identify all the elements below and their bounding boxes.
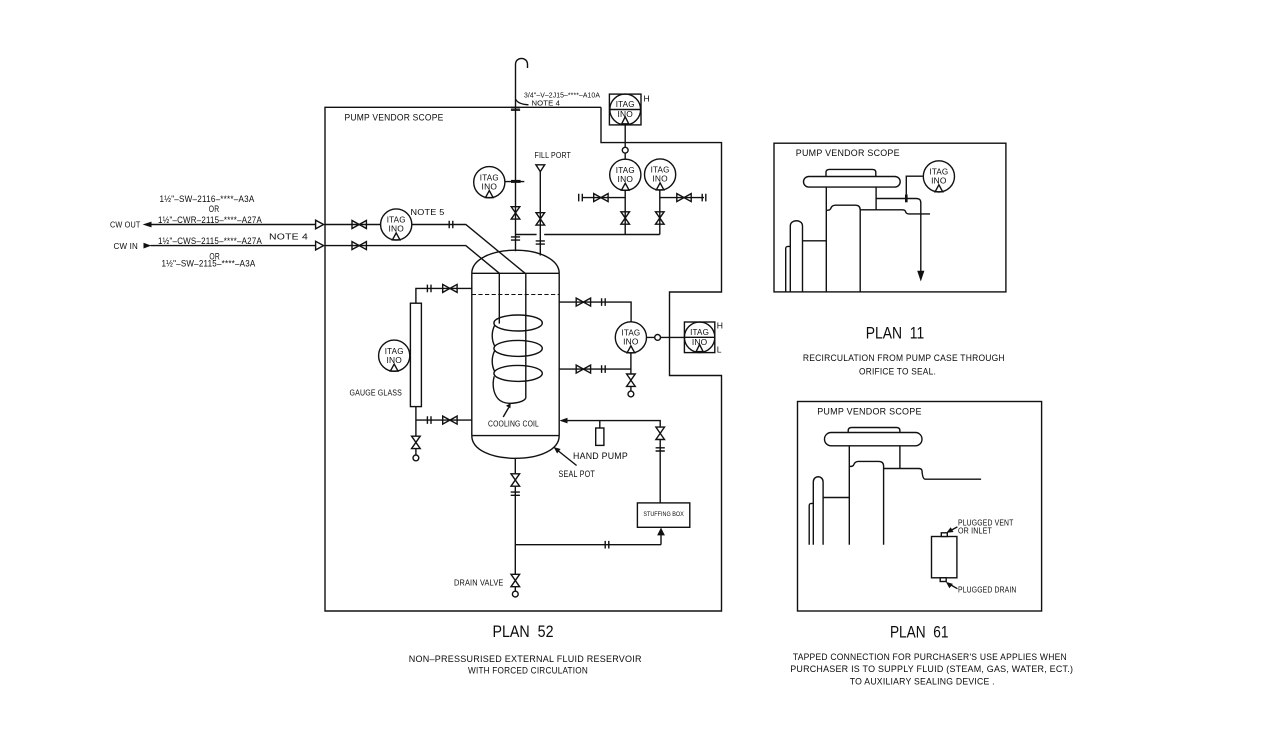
pump base connector wire (plan 61) xyxy=(823,497,849,499)
break right end xyxy=(702,194,706,202)
instrument leg left vertical xyxy=(624,190,626,234)
arrow down to seal (plan 11) xyxy=(917,271,924,282)
svg-text:TO AUXILIARY SEALING DEVICE .: TO AUXILIARY SEALING DEVICE . xyxy=(850,677,995,687)
vessel top head xyxy=(472,250,559,273)
valve on bottom tap xyxy=(443,416,457,424)
gauge glass top tap wire xyxy=(416,288,472,303)
tapped connection block (plan 61) xyxy=(932,537,957,578)
gauge glass drain stub xyxy=(415,449,417,455)
svg-text:COOLING COIL: COOLING COIL xyxy=(488,418,539,428)
svg-text:PUMP VENDOR SCOPE: PUMP VENDOR SCOPE xyxy=(345,113,444,123)
break LT lower tap xyxy=(602,365,606,373)
vessel drain valve xyxy=(511,474,520,486)
svg-text:SEAL POT: SEAL POT xyxy=(559,469,596,479)
svg-text:PLAN 52: PLAN 52 xyxy=(493,623,554,641)
pump suction pipe large (plan 11) xyxy=(790,221,802,292)
cooling coil left connector arcs xyxy=(492,325,494,371)
main drain valve xyxy=(511,574,520,586)
valve on stuffing box line xyxy=(656,427,665,439)
cooling coil loop 2 xyxy=(494,340,542,356)
instrument bubble top right pressure xyxy=(645,159,676,190)
flange pair on fill port pipe xyxy=(536,241,545,244)
arrow CW IN (points right) xyxy=(144,243,152,249)
recirculation wire from case through orifice (plan 11) xyxy=(876,199,921,273)
panel instrument square (high alarm) xyxy=(609,94,641,125)
svg-text:H: H xyxy=(644,94,650,104)
valve instrument leg left xyxy=(621,212,630,224)
svg-text:PURCHASER IS TO SUPPLY FLUID (: PURCHASER IS TO SUPPLY FLUID (STEAM, GAS… xyxy=(790,664,1073,674)
break LT upper tap xyxy=(602,298,606,306)
leader arrow plugged drain xyxy=(951,585,958,589)
coil outlet pipe (internal) xyxy=(498,273,500,323)
arrow CW OUT (points left) xyxy=(143,222,152,228)
LT drain wire xyxy=(630,353,632,391)
bottom header wire xyxy=(515,544,661,546)
svg-text:WITH FORCED CIRCULATION: WITH FORCED CIRCULATION xyxy=(468,666,588,676)
pump base connector wire (plan 11) xyxy=(803,240,827,242)
break on bottom tap xyxy=(427,416,431,424)
svg-text:DRAIN VALVE: DRAIN VALVE xyxy=(454,578,504,588)
scope box PLAN 61 xyxy=(798,402,1042,612)
instrument bubble (vent line) xyxy=(474,167,505,198)
flange pair on vent pipe xyxy=(511,237,520,240)
svg-text:PLAN 11: PLAN 11 xyxy=(866,325,925,343)
svg-text:OR: OR xyxy=(209,204,220,214)
valve on CW IN xyxy=(352,242,366,250)
cooling coil loop 3 xyxy=(494,365,542,381)
wire CW OUT to diagonal xyxy=(412,225,525,274)
small circle between LT and switch xyxy=(655,335,661,341)
instrument bubble NOTE5 line xyxy=(381,209,412,240)
vessel drain wire xyxy=(514,458,516,574)
cooling coil loop 1 xyxy=(494,315,542,331)
wire below valve xyxy=(659,440,661,503)
valve on left purge wire xyxy=(594,194,608,202)
svg-text:ORIFICE TO SEAL.: ORIFICE TO SEAL. xyxy=(859,367,936,377)
stuffing box xyxy=(637,503,689,527)
top stub plugged vent xyxy=(941,533,947,537)
break on bottom header xyxy=(605,541,609,549)
liquid level dashed line xyxy=(472,294,559,296)
boundary connection triangle CW IN xyxy=(316,241,324,250)
header wire from vent pipe to instrument legs (gap at fill pipe) xyxy=(516,234,660,236)
arrow into vessel xyxy=(559,418,567,424)
break on CW OUT xyxy=(449,221,453,229)
svg-text:HAND PUMP: HAND PUMP xyxy=(573,451,628,461)
break on top tap xyxy=(427,285,431,293)
svg-text:RECIRCULATION FROM PUMP CASE T: RECIRCULATION FROM PUMP CASE THROUGH xyxy=(803,353,1005,363)
fill port funnel xyxy=(536,165,545,172)
svg-text:NON–PRESSURISED EXTERNAL FLUID: NON–PRESSURISED EXTERNAL FLUID RESERVOIR xyxy=(409,654,642,664)
svg-text:PUMP VENDOR SCOPE: PUMP VENDOR SCOPE xyxy=(796,148,900,158)
vessel seal pot shell xyxy=(472,273,559,435)
gooseneck vent xyxy=(516,58,528,251)
svg-text:1½"–CWS–2115–****–A27A: 1½"–CWS–2115–****–A27A xyxy=(158,236,262,246)
wire LT to switch square xyxy=(647,336,685,338)
wire CW IN to diagonal xyxy=(325,246,499,274)
orifice plate on vent pipe at tap xyxy=(511,180,521,183)
pump top cap (plan 61) xyxy=(848,428,900,433)
flange pair on drain xyxy=(511,492,520,495)
svg-text:NOTE 4: NOTE 4 xyxy=(269,232,308,242)
svg-text:STUFFING BOX: STUFFING BOX xyxy=(643,511,684,518)
bottom stub plugged drain xyxy=(940,578,946,582)
tap line bubble to vent pipe xyxy=(505,181,524,183)
pump top cap (plan 11) xyxy=(826,169,876,176)
instrument bubble (plan 11) xyxy=(923,161,954,192)
pump suction pipe large (plan 61) xyxy=(813,477,823,545)
valve on fill port pipe xyxy=(536,213,545,225)
valve on right purge wire xyxy=(677,194,691,202)
pump gland block (plan 61) xyxy=(849,446,900,545)
pump gland block (plan 11) xyxy=(826,187,876,292)
svg-text:1½"–SW–2115–****–A3A: 1½"–SW–2115–****–A3A xyxy=(162,259,256,269)
pump seal flange stadium (plan 61) xyxy=(825,433,923,446)
leader arrow plugged vent xyxy=(951,527,957,530)
valve LT drain xyxy=(627,374,636,386)
svg-text:NOTE 5: NOTE 5 xyxy=(411,207,445,217)
pump seal flange stadium (plan 11) xyxy=(804,177,901,188)
hand pump return wire with arrow into vessel xyxy=(567,421,661,427)
instrument bubble gauge glass xyxy=(379,340,410,371)
valve on vent pipe xyxy=(511,207,520,219)
break on stuffing box line xyxy=(656,448,665,451)
valve LT upper tap xyxy=(576,298,590,306)
gauge glass drain valve xyxy=(412,436,421,448)
gauge/purge wire left of instrument legs xyxy=(582,197,625,199)
small circle above bubble xyxy=(622,147,628,153)
svg-text:PUMP VENDOR SCOPE: PUMP VENDOR SCOPE xyxy=(817,407,922,417)
coil inlet pipe (internal) xyxy=(525,273,527,398)
drain cap xyxy=(512,591,518,597)
panel instrument square (level switch H/L) xyxy=(684,322,714,353)
leader curve vent label xyxy=(516,99,529,105)
wire CW OUT line xyxy=(151,224,316,226)
scope box PLAN 52 boundary xyxy=(325,107,722,611)
svg-text:ITAG: ITAG xyxy=(616,99,635,109)
svg-text:L: L xyxy=(717,345,722,355)
instrument bubble top left pressure xyxy=(610,159,641,190)
instrument bubble level transmitter xyxy=(615,322,646,353)
svg-text:1½"–SW–2116–****–A3A: 1½"–SW–2116–****–A3A xyxy=(160,194,255,204)
instrument leg right vertical xyxy=(659,190,661,235)
svg-text:1½"–CWR–2115–****–A27A: 1½"–CWR–2115–****–A27A xyxy=(158,215,262,225)
instrument tap wire (plan 11) xyxy=(906,176,923,194)
seal supply wire (plan 61) xyxy=(900,469,981,480)
svg-text:PLAN 61: PLAN 61 xyxy=(890,624,949,642)
drain stub xyxy=(514,587,516,591)
valve on CW OUT xyxy=(352,221,366,229)
arrow leader cooling coil xyxy=(503,408,509,418)
pump suction pipe small (plan 61) xyxy=(809,503,813,544)
valve on top tap xyxy=(443,284,457,292)
wire CW OUT inside scope xyxy=(325,224,381,226)
hand pump stub xyxy=(599,421,601,428)
purge wire right of instrument legs xyxy=(660,197,704,199)
cooling coil bottom turn xyxy=(493,376,526,403)
gauge glass drain cap xyxy=(413,455,419,461)
svg-text:FILL PORT: FILL PORT xyxy=(535,150,572,160)
seal flush lower wire (plan 11) xyxy=(876,210,930,214)
scope box PLAN 11 xyxy=(774,143,1006,292)
LT upper tap wire xyxy=(559,302,631,322)
svg-text:TAPPED CONNECTION FOR PURCHASE: TAPPED CONNECTION FOR PURCHASER'S USE AP… xyxy=(793,652,1067,662)
svg-text:GAUGE GLASS: GAUGE GLASS xyxy=(350,388,403,398)
vessel bottom head xyxy=(472,436,559,459)
svg-text:NOTE 4: NOTE 4 xyxy=(532,99,561,108)
hand pump body xyxy=(596,428,604,445)
valve LT lower tap xyxy=(576,365,590,373)
LT lower tap wire xyxy=(559,368,631,370)
boundary connection triangle CW OUT xyxy=(316,220,324,229)
svg-text:ITAG: ITAG xyxy=(690,327,709,337)
pump suction pipe small (plan 11) xyxy=(786,246,791,292)
gauge glass bottom tap wire xyxy=(416,407,472,436)
svg-text:CW OUT: CW OUT xyxy=(110,220,141,230)
svg-text:OR INLET: OR INLET xyxy=(958,526,992,536)
fill port pipe xyxy=(539,172,541,256)
wire CW IN line xyxy=(151,245,316,247)
LT drain cap xyxy=(628,391,634,397)
svg-text:PLUGGED DRAIN: PLUGGED DRAIN xyxy=(958,585,1017,595)
gauge glass column xyxy=(410,303,421,406)
leader seal pot xyxy=(558,451,577,466)
valve instrument leg right xyxy=(656,212,665,224)
svg-text:CW IN: CW IN xyxy=(114,241,139,251)
wire square to bubble with orifice circle xyxy=(624,125,626,159)
svg-text:H: H xyxy=(717,321,723,331)
orifice plate (plan 11) xyxy=(905,194,908,202)
break left end xyxy=(579,194,583,202)
scope boundary tick on vent pipe xyxy=(511,108,520,110)
arrow up into stuffing box xyxy=(660,534,662,545)
